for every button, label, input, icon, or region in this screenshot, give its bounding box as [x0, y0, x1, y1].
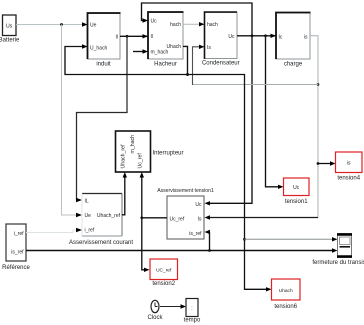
junction node Uc_ref — [140, 216, 143, 219]
wire is_ref long line to scope input 2 — [26, 248, 338, 252]
svg-text:hach: hach — [170, 22, 181, 28]
wire is from charge down the right side — [310, 36, 318, 218]
svg-text:tension2: tension2 — [152, 281, 175, 287]
svg-text:m_hach: m_hach — [130, 135, 136, 154]
svg-text:charge: charge — [284, 62, 303, 68]
display tension6 (Uhach) — [272, 279, 301, 310]
svg-text:Référence: Référence — [2, 265, 30, 271]
svg-text:tension6: tension6 — [274, 304, 297, 310]
block tempo — [184, 299, 201, 324]
svg-text:Uc_ref: Uc_ref — [170, 216, 185, 222]
svg-text:tension1: tension1 — [285, 199, 308, 205]
wire is to Asservissement tension Is input — [205, 215, 319, 219]
svg-text:Ue: Ue — [85, 213, 92, 219]
svg-text:Uhach: Uhach — [279, 288, 293, 294]
wire Uc down to display tension1 — [266, 36, 284, 189]
junction node Uc-C — [264, 34, 267, 37]
svg-text:Uc: Uc — [195, 202, 202, 208]
wire Uhach_ref to Interrupteur input 1 — [122, 172, 127, 215]
svg-text:induit: induit — [96, 62, 111, 68]
wire Uc Condensateur to charge — [237, 34, 276, 38]
svg-text:is: is — [347, 161, 351, 167]
svg-text::: : — [191, 306, 192, 312]
block Batterie (Us source) — [0, 15, 20, 44]
svg-text:Uhach_ref: Uhach_ref — [121, 144, 127, 168]
svg-text:Interrupteur: Interrupteur — [153, 151, 184, 157]
display tension1 (Uc) — [284, 178, 310, 205]
svg-text:Asservissement courant: Asservissement courant — [69, 240, 133, 246]
clock — [147, 300, 163, 321]
wire Uhach right and down to display tension6 — [188, 75, 272, 292]
wire Uc down to Asservissement tension Uc input — [205, 36, 253, 206]
wire Uc up over top to Hacheur Uc input — [142, 3, 253, 36]
wire Il induit to Hacheur — [120, 34, 148, 38]
svg-text:Condensateur: Condensateur — [202, 61, 240, 67]
svg-text:i_ref: i_ref — [14, 231, 24, 237]
block Reference — [2, 224, 30, 271]
svg-text:Uc: Uc — [228, 34, 235, 40]
svg-text:Is: Is — [207, 45, 211, 51]
wire Uc_ref down to display tension2 — [142, 218, 150, 272]
wire Uhach left to induit U_hach input — [65, 44, 188, 74]
scope fermeture du transistor — [312, 234, 364, 267]
wire clock to tempo — [160, 304, 186, 308]
block Interrupteur — [116, 131, 184, 172]
svg-text:tempo: tempo — [184, 318, 201, 324]
svg-text:Uc_ref: Uc_ref — [138, 153, 144, 169]
block induit — [88, 13, 121, 68]
svg-text:Ue: Ue — [90, 23, 97, 29]
svg-text:Uhach: Uhach — [167, 44, 182, 50]
wire Uhach from Hacheur — [183, 46, 188, 74]
wire Uc_ref from Asservissement tension — [142, 217, 167, 219]
svg-text:Uc: Uc — [151, 18, 158, 24]
wire hach Hacheur to Condensateur — [183, 22, 205, 26]
svg-text:Hacheur: Hacheur — [154, 62, 177, 68]
display tension2 (UC_ref) — [150, 259, 178, 287]
junction node is-a — [317, 83, 320, 86]
svg-text:Is: Is — [198, 216, 202, 222]
svg-text:Il: Il — [151, 34, 154, 40]
svg-text:is_ref: is_ref — [189, 231, 202, 237]
wire is to display tension4 — [318, 161, 336, 165]
svg-text:Uc: Uc — [293, 185, 300, 191]
wire Uc_ref up to Interrupteur input 2 — [140, 172, 144, 218]
svg-text:Batterie: Batterie — [0, 38, 20, 44]
wire Uhach tap to scope input 1 — [245, 237, 338, 241]
svg-text:U_hach: U_hach — [90, 46, 107, 52]
block Condensateur — [202, 12, 240, 67]
svg-text:Asservissement tension1: Asservissement tension1 — [157, 188, 214, 194]
svg-text:i_ref: i_ref — [85, 228, 95, 234]
junction node Uhach — [186, 73, 189, 76]
block Hacheur — [148, 12, 184, 68]
svg-text:m_hach: m_hach — [151, 49, 169, 55]
junction node is_ref — [208, 249, 211, 252]
display tension4 (is) — [336, 152, 363, 182]
wire Us to induit Ue — [16, 22, 88, 26]
junction node Uc-B — [251, 34, 254, 37]
svg-text:Us: Us — [6, 23, 13, 29]
svg-text:fermeture du transistor: fermeture du transistor — [312, 260, 364, 266]
wire i_ref Reference to Asservissement courant — [26, 228, 82, 233]
svg-text:Ic: Ic — [279, 34, 283, 40]
svg-text:is: is — [304, 34, 308, 40]
wire Il feedback to Asservissement courant IL — [76, 36, 127, 202]
svg-text:hach: hach — [207, 22, 218, 28]
svg-text:Uhach_ref: Uhach_ref — [97, 213, 121, 219]
wire m_hach stub into Hacheur — [133, 49, 148, 53]
svg-text:UC_ref: UC_ref — [156, 268, 172, 274]
wire is_ref up to Asservissement tension — [205, 230, 211, 251]
svg-text:Clock: Clock — [147, 315, 163, 321]
junction node is-b — [317, 162, 320, 165]
junction node Uhach-scope — [243, 238, 246, 241]
svg-text:tension4: tension4 — [337, 176, 360, 182]
wire Us down to Asservissement courant Ue — [62, 25, 83, 218]
junction node Il — [126, 35, 129, 38]
junction node on Us wire — [60, 23, 63, 26]
svg-text:IL: IL — [85, 198, 89, 204]
block charge — [276, 13, 311, 68]
block Asservissement courant — [69, 194, 133, 247]
block Asservissement tension1 (mirrored) — [157, 188, 214, 239]
svg-text:Il: Il — [116, 34, 119, 40]
svg-text:is_ref: is_ref — [11, 249, 24, 255]
wire is back to Condensateur Is input — [193, 45, 319, 85]
